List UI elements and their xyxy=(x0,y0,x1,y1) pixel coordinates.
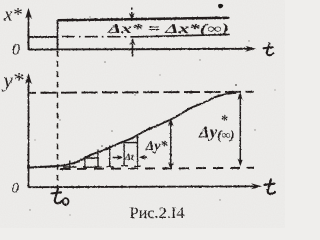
underline segment of initial level under text xyxy=(137,35,230,37)
y-axis arrowhead (top plot) xyxy=(25,8,31,19)
label t0 xyxy=(52,189,69,205)
staircase foot 4 xyxy=(107,166,114,168)
svg-text:x*: x* xyxy=(3,5,22,26)
svg-text:Δy*: Δy* xyxy=(145,139,169,154)
scan speckles xyxy=(29,16,275,215)
svg-text:0: 0 xyxy=(12,42,20,59)
staircase hatch v6 xyxy=(137,135,139,167)
staircase foot 3 xyxy=(95,166,102,168)
y-axis (bottom plot, y*) xyxy=(28,78,30,188)
dimension up-arrow to initial level line xyxy=(132,44,134,57)
staircase hatch v3 xyxy=(97,150,99,168)
step top level line x*=x*(inf) xyxy=(58,18,230,21)
label t (bottom axis) xyxy=(265,180,275,195)
label t (top axis) xyxy=(264,44,274,56)
staircase hatch v4 xyxy=(109,146,111,168)
initial level line x*(0) xyxy=(29,36,59,38)
top dashed line y*(inf) level xyxy=(29,92,254,93)
svg-text:Δt: Δt xyxy=(124,153,134,163)
dimension down-arrow to step top line xyxy=(131,8,133,15)
staircase top 5 xyxy=(124,142,137,144)
staircase hatch v2 xyxy=(84,157,86,168)
delta-t right arrow xyxy=(142,156,147,158)
svg-text:Δx* = Δx*(∞): Δx* = Δx*(∞) xyxy=(106,21,229,36)
staircase foot 5 xyxy=(121,165,128,167)
t-axis arrowhead (bottom plot) xyxy=(251,183,262,189)
staircase top 2 xyxy=(85,157,98,159)
staircase foot 6 xyxy=(134,165,141,167)
y-axis (top plot, x*) xyxy=(28,12,30,50)
staircase hatch v1 xyxy=(69,161,71,171)
delta-t left arrow xyxy=(113,157,120,159)
ink speck top right xyxy=(218,4,223,8)
svg-text:Рис.2.I4: Рис.2.I4 xyxy=(130,205,185,222)
vertical dash-dot line at t0 xyxy=(57,51,59,187)
t-axis arrowhead (top plot) xyxy=(245,46,256,52)
staircase foot 2 xyxy=(83,166,97,168)
delta-y*(inf) dimension double arrow xyxy=(239,97,241,162)
svg-text:y*: y* xyxy=(2,68,24,92)
svg-text:0: 0 xyxy=(12,181,20,197)
y-axis arrowhead (bottom plot) xyxy=(25,73,32,84)
t-axis (bottom plot) xyxy=(29,185,257,188)
initial flat level of y* xyxy=(29,166,59,168)
step edge vertical at t0 xyxy=(57,20,59,49)
dash-dot continuation of initial level xyxy=(62,36,137,38)
response curve y*(t) xyxy=(58,93,237,166)
staircase foot 1 xyxy=(63,166,77,168)
staircase hatch v5 xyxy=(123,141,125,166)
bottom dashed line (initial level continuation) xyxy=(60,168,254,169)
t-axis (top plot) xyxy=(29,48,251,51)
delta-y* dimension double arrow xyxy=(170,123,172,165)
svg-text:*: * xyxy=(221,114,229,129)
